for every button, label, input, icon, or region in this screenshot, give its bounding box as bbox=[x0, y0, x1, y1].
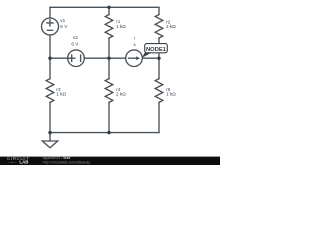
v1 minus sign bbox=[47, 29, 52, 31]
svg-text:6 V: 6 V bbox=[71, 41, 79, 46]
watermark bar bbox=[0, 157, 220, 165]
wire center to i1 bbox=[109, 57, 126, 59]
svg-text:1 kΩ: 1 kΩ bbox=[56, 91, 66, 96]
i1 arrow head bbox=[136, 56, 140, 60]
resistor R4 2k bbox=[105, 79, 113, 103]
wire mid rail left (v2 row) bbox=[50, 57, 68, 59]
junction dot center cross bbox=[107, 57, 110, 60]
junction dot i1/right branch bbox=[157, 57, 160, 60]
svg-text:http://circuitlab.com/c6kavay: http://circuitlab.com/c6kavay bbox=[43, 160, 91, 164]
resistor R1 1k bbox=[105, 15, 113, 39]
svg-text:v1: v1 bbox=[60, 18, 65, 23]
svg-text:6 V: 6 V bbox=[60, 24, 68, 29]
svg-text:NODE1: NODE1 bbox=[146, 47, 167, 53]
junction dot bottom left ground bbox=[48, 131, 51, 134]
wire r2 leads bbox=[158, 7, 160, 43]
NODE1 flag pointer bbox=[142, 52, 152, 58]
svg-text:2 kΩ: 2 kΩ bbox=[166, 24, 176, 29]
NODE1 flag box bbox=[145, 44, 168, 53]
v1 plus sign bbox=[47, 20, 53, 26]
svg-text:—⋍—: —⋍— bbox=[7, 161, 17, 165]
wire v2 to center bbox=[84, 57, 109, 59]
v2 minus bar bbox=[80, 55, 82, 61]
voltage source V2 circle bbox=[68, 50, 85, 67]
svg-text:LAB: LAB bbox=[19, 160, 28, 165]
ground triangle bbox=[42, 141, 57, 148]
wire r1 top lead bbox=[108, 7, 110, 14]
wire r5 bottom lead bbox=[158, 102, 160, 132]
wire bottom rail bbox=[50, 132, 159, 134]
resistor R2 2k bbox=[155, 15, 163, 39]
svg-text:1 kΩ: 1 kΩ bbox=[166, 91, 176, 96]
wire r3 top lead bbox=[49, 58, 51, 78]
v2 plus sign bbox=[69, 55, 75, 61]
svg-text:v2: v2 bbox=[73, 35, 78, 40]
wire r3 bottom lead bbox=[49, 102, 51, 132]
wire top rail bbox=[50, 6, 159, 8]
wire v1 top lead bbox=[49, 7, 51, 18]
wire r1 bottom lead bbox=[108, 38, 110, 58]
wire i1 to right branch bbox=[142, 57, 159, 59]
junction dot top r1 bbox=[107, 6, 110, 9]
i1 arrow shaft bbox=[129, 57, 137, 59]
svg-text:i: i bbox=[134, 36, 135, 41]
wire right branch below NODE1 bbox=[158, 53, 160, 79]
resistor R5 1k bbox=[155, 79, 163, 103]
resistor R3 1k bbox=[46, 79, 54, 103]
svg-text:1 kΩ: 1 kΩ bbox=[116, 24, 126, 29]
current source I1 circle bbox=[126, 50, 143, 67]
wire r4 leads bbox=[108, 58, 110, 132]
svg-text:2 kΩ: 2 kΩ bbox=[116, 91, 126, 96]
ground lead bbox=[49, 133, 51, 141]
junction dot bottom r4 bbox=[107, 131, 110, 134]
junction dot v1/v2/r3 bbox=[48, 57, 51, 60]
wire v1 bottom lead bbox=[49, 35, 51, 58]
voltage source V1 circle bbox=[42, 18, 59, 35]
